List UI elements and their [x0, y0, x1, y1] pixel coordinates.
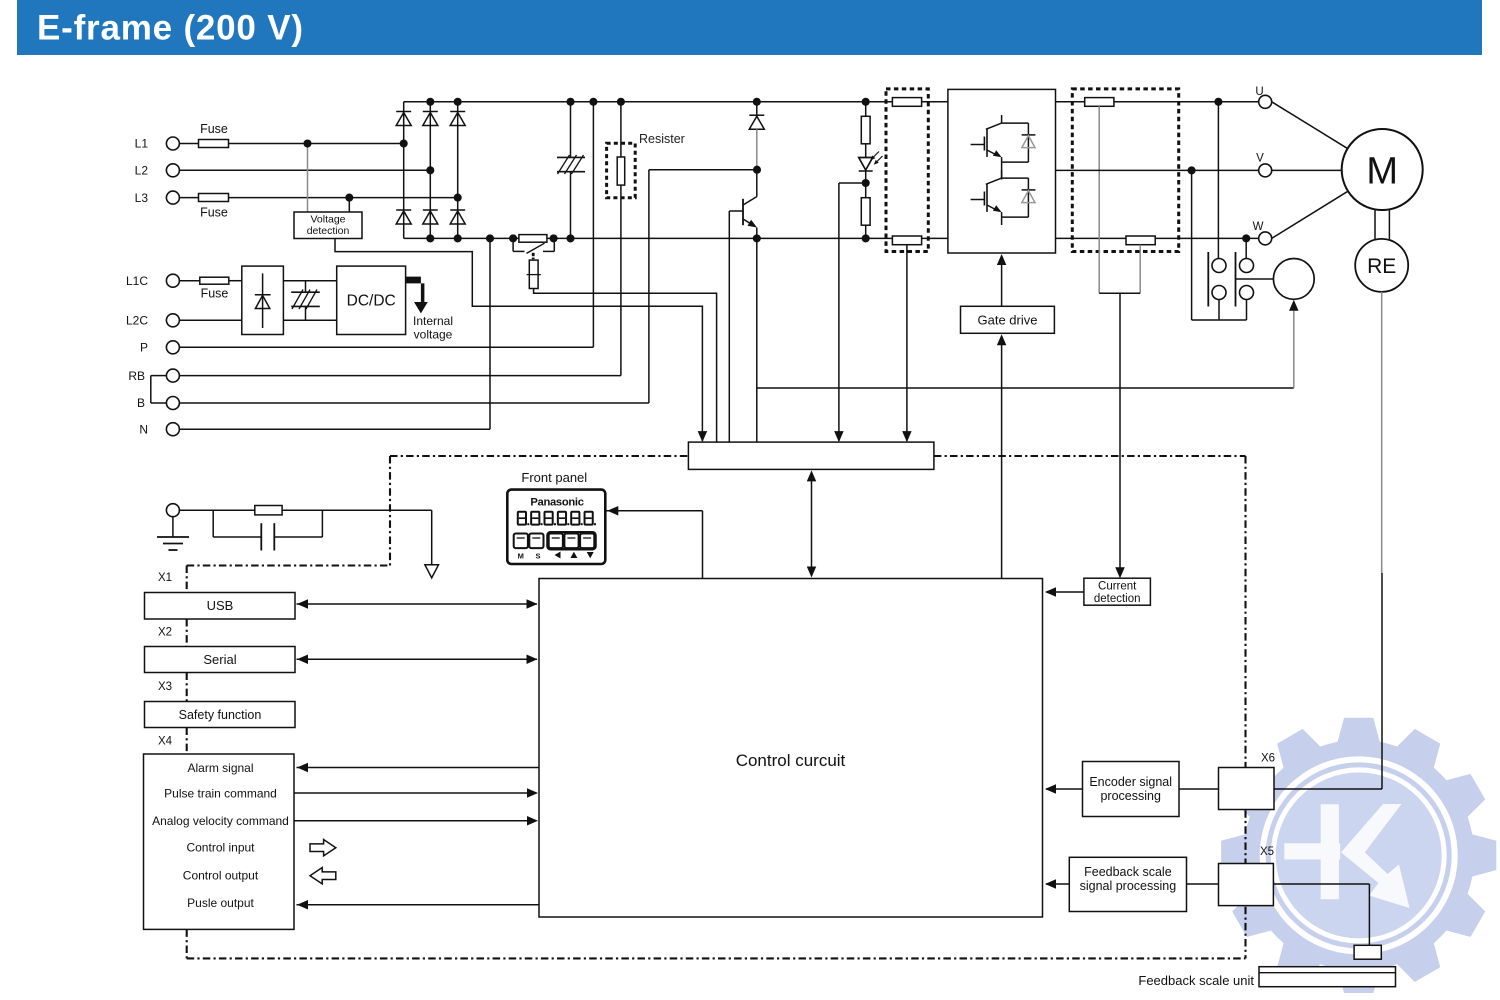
svg-text:Alarm signal: Alarm signal [187, 761, 253, 775]
svg-text:Serial: Serial [203, 652, 236, 667]
svg-text:X3: X3 [158, 681, 172, 693]
svg-text:X2: X2 [158, 627, 172, 639]
svg-text:Feedback scale: Feedback scale [1084, 865, 1172, 879]
svg-text:voltage: voltage [414, 328, 453, 342]
svg-text:L2C: L2C [126, 314, 148, 328]
svg-text:Internal: Internal [413, 314, 453, 328]
svg-text:X6: X6 [1261, 753, 1275, 765]
svg-text:Fuse: Fuse [200, 122, 228, 136]
svg-text:B: B [137, 396, 145, 410]
svg-text:Panasonic: Panasonic [530, 497, 583, 509]
svg-text:Control curcuit: Control curcuit [736, 751, 846, 770]
svg-text:S: S [535, 552, 540, 561]
svg-text:Front panel: Front panel [521, 470, 587, 485]
svg-text:Feedback scale unit: Feedback scale unit [1138, 973, 1254, 988]
svg-text:detection: detection [307, 225, 350, 237]
svg-text:Resister: Resister [639, 132, 685, 146]
svg-text:Pusle output: Pusle output [187, 896, 254, 910]
svg-text:USB: USB [207, 598, 234, 613]
svg-text:L3: L3 [135, 191, 149, 205]
svg-text:Fuse: Fuse [201, 287, 229, 301]
svg-text:L1: L1 [135, 137, 149, 151]
svg-text:processing: processing [1100, 789, 1160, 803]
svg-text:V: V [1256, 153, 1264, 165]
svg-text:Current: Current [1098, 581, 1137, 593]
svg-text:Fuse: Fuse [200, 206, 228, 220]
svg-text:X5: X5 [1260, 846, 1274, 858]
svg-text:P: P [140, 341, 148, 355]
svg-text:N: N [139, 422, 148, 436]
svg-text:Voltage: Voltage [310, 214, 345, 226]
svg-text:X1: X1 [158, 572, 172, 584]
svg-text:Control output: Control output [183, 868, 259, 882]
svg-text:RE: RE [1367, 255, 1396, 278]
svg-text:Pulse train command: Pulse train command [164, 786, 277, 800]
svg-text:signal processing: signal processing [1080, 879, 1177, 893]
svg-text:L2: L2 [135, 164, 149, 178]
svg-text:detection: detection [1094, 593, 1141, 605]
svg-text:X4: X4 [158, 736, 173, 748]
svg-text:M: M [1366, 151, 1398, 193]
svg-text:Gate drive: Gate drive [978, 313, 1038, 328]
svg-text:W: W [1253, 221, 1264, 233]
svg-text:Control input: Control input [186, 840, 255, 854]
svg-text:Safety function: Safety function [179, 708, 262, 722]
svg-text:RB: RB [128, 369, 145, 383]
svg-text:Analog velocity command: Analog velocity command [152, 814, 289, 828]
svg-text:E-frame (200 V): E-frame (200 V) [37, 9, 304, 48]
svg-text:L1C: L1C [126, 274, 148, 288]
svg-text:Encoder signal: Encoder signal [1089, 775, 1172, 789]
svg-text:M: M [518, 552, 524, 561]
svg-text:DC/DC: DC/DC [347, 293, 396, 310]
